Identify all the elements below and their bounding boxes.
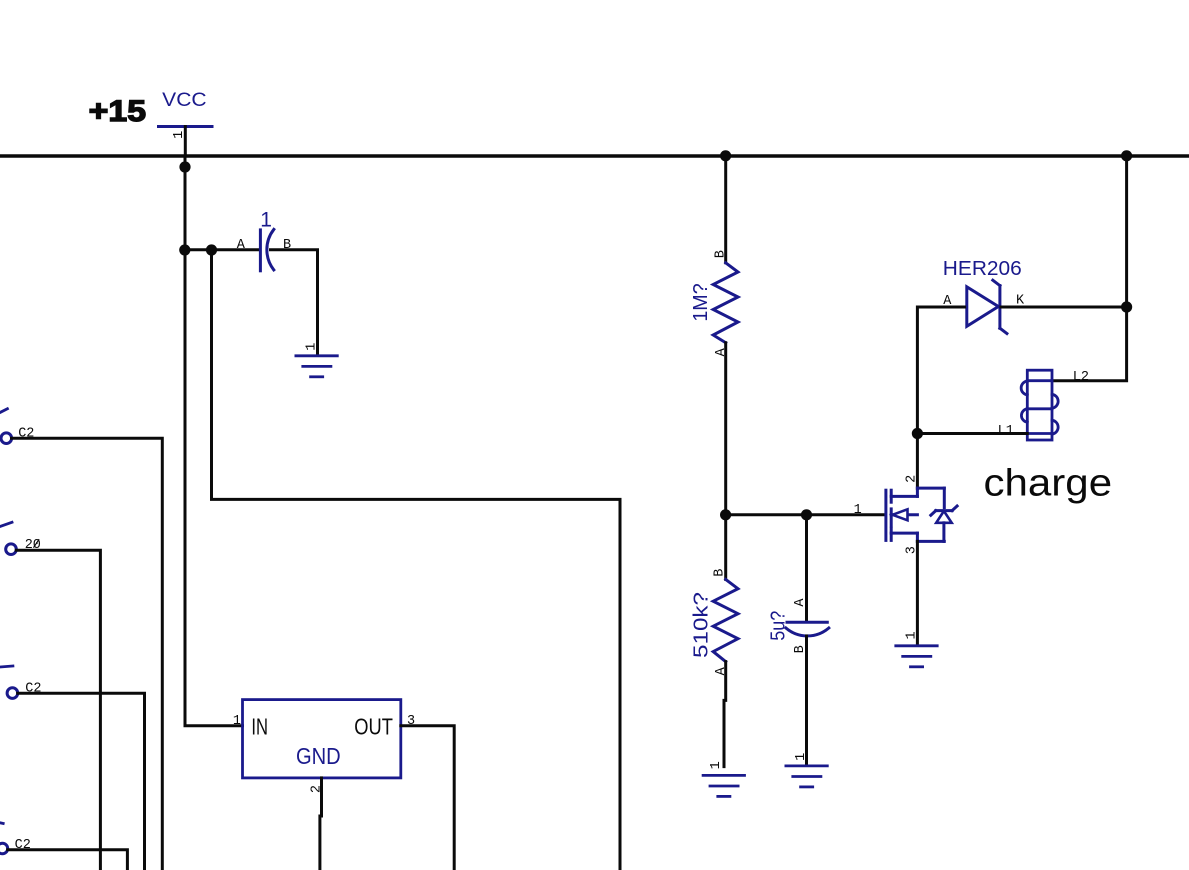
ground for capacitor 1	[296, 356, 337, 377]
ground for MOSFET source	[896, 646, 937, 667]
svg-text:5u?: 5u?	[768, 611, 790, 641]
wire gate horizontal	[726, 513, 884, 516]
wire drain down from L1 node	[916, 434, 919, 489]
junction on bus at x=725	[720, 150, 731, 161]
connector C2 (top) circle	[1, 433, 12, 444]
wire diode anode from MOSFET drain node	[917, 307, 964, 434]
winding fragment above C2 bottom	[0, 821, 3, 825]
wire capacitor B to ground	[271, 250, 318, 355]
wire L1	[917, 432, 1027, 435]
svg-text:B: B	[713, 569, 728, 577]
wire from C2 top	[12, 438, 163, 870]
inductor L coil	[1021, 370, 1058, 440]
regulator U? box	[243, 700, 401, 778]
svg-text:OUT: OUT	[354, 714, 393, 740]
junction diode K node	[1121, 301, 1132, 312]
wire OUT pin3 to bottom	[401, 726, 454, 870]
svg-text:A: A	[237, 238, 246, 253]
wire bus to resistor 1M	[724, 156, 727, 263]
wire 5u to ground	[805, 636, 808, 765]
connector 20 circle	[6, 544, 17, 555]
capacitor 1 left plate (pin A)	[259, 230, 262, 271]
svg-text:charge: charge	[984, 462, 1113, 504]
wire from C2 bottom	[8, 850, 128, 870]
connector C2 (bottom) circle	[0, 843, 8, 854]
svg-text:L1: L1	[998, 424, 1014, 439]
svg-text:1: 1	[233, 714, 241, 729]
capacitor 1 curved plate (pin B)	[267, 229, 274, 270]
junction at branch y=250	[179, 244, 190, 255]
capacitor 5u? top plate (pin A)	[787, 621, 827, 624]
wire 1M to gate node	[724, 343, 727, 515]
wire 5u cap top	[805, 515, 808, 622]
wire from C2 middle	[18, 693, 145, 870]
wire second vertical down then right then down to bottom	[212, 250, 621, 870]
wire gate node to 510k	[724, 515, 727, 580]
svg-text:HER206: HER206	[943, 258, 1022, 280]
svg-text:VCC: VCC	[162, 90, 206, 111]
svg-text:A: A	[793, 598, 808, 607]
wire diode cathode to right vertical	[1001, 306, 1127, 309]
ground for 5u	[786, 766, 827, 787]
svg-text:L2: L2	[1073, 370, 1089, 385]
power symbol VCC bar	[159, 125, 213, 128]
wire source to ground	[916, 541, 919, 645]
wire right vertical from bus to L2	[1052, 156, 1127, 381]
capacitor 5u? curved plate (pin B)	[786, 628, 829, 636]
wire main left vertical from bus to regulator	[185, 156, 243, 726]
winding fragment above C2 middle	[0, 666, 13, 667]
junction on bus at x=1127	[1121, 150, 1132, 161]
svg-text:1: 1	[172, 131, 187, 139]
wire from 20	[16, 550, 100, 870]
resistor 1M? zigzag	[713, 263, 738, 343]
winding fragment above C2 top	[0, 409, 7, 413]
svg-text:2: 2	[905, 475, 920, 483]
resistor 510k? zigzag	[713, 579, 738, 661]
wire GND pin2 to bottom	[320, 778, 322, 870]
svg-text:GND: GND	[296, 743, 341, 769]
svg-text:1: 1	[905, 631, 920, 639]
junction L1 node	[912, 428, 923, 439]
transistor Q MOSFET	[886, 488, 957, 541]
svg-text:1: 1	[304, 343, 319, 351]
wire 510k to ground with jog	[724, 662, 726, 767]
junction gate node left	[720, 509, 731, 520]
svg-text:B: B	[714, 250, 729, 258]
ground for 510k	[703, 775, 744, 796]
svg-text:1M?: 1M?	[690, 283, 712, 321]
junction second at y=250	[206, 244, 217, 255]
junction at 5u cap top	[801, 509, 812, 520]
wire VCC stub	[184, 127, 187, 157]
svg-text:510k?: 510k?	[691, 592, 713, 658]
svg-text:1: 1	[709, 761, 724, 769]
diode HER206	[967, 280, 1007, 333]
winding fragment above 20	[0, 522, 12, 526]
wire branch to capacitor C?	[185, 248, 260, 251]
svg-text:+15: +15	[89, 95, 146, 128]
wire top power bus	[0, 154, 1189, 157]
svg-text:1: 1	[854, 503, 862, 518]
svg-text:1: 1	[260, 208, 272, 231]
svg-text:2: 2	[310, 785, 325, 793]
svg-text:1: 1	[794, 753, 809, 761]
node junction under VCC	[179, 161, 190, 172]
svg-text:IN: IN	[251, 714, 268, 740]
connector C2 (middle) circle	[7, 688, 18, 699]
